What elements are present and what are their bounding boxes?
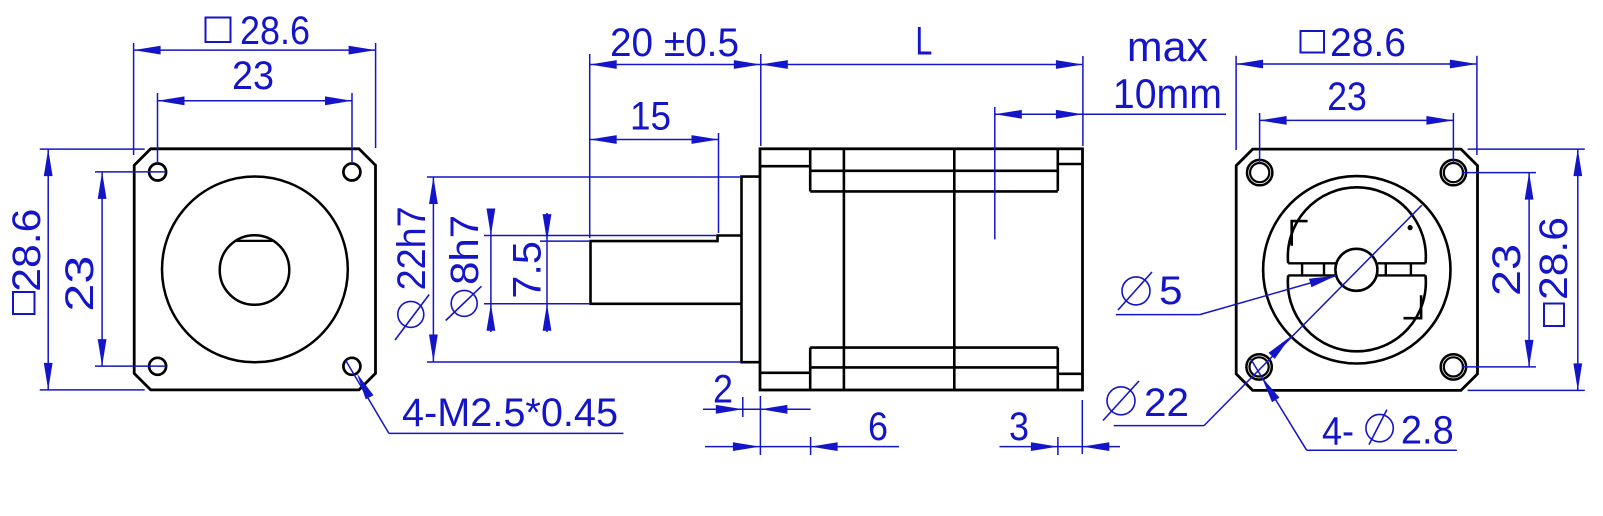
svg-text:4-: 4- [1322, 410, 1354, 454]
leader 4-D2.8 [1307, 449, 1457, 451]
svg-text:23: 23 [58, 256, 102, 312]
dimension square28.6 top: extension lines [133, 43, 135, 155]
svg-text:20 ±0.5: 20 ±0.5 [610, 21, 739, 65]
dimension L arrows [761, 60, 788, 69]
left view mounting hole bottom-right [343, 358, 360, 375]
right view ring hole bottom-left [1246, 354, 1271, 379]
right view shaft circle D5 [1335, 249, 1377, 291]
dimension square28.6 left: extension lines [40, 148, 145, 150]
middle bottom-right lip [1058, 372, 1083, 375]
left view mounting hole top-right [343, 164, 360, 181]
left view shaft flat chord [235, 240, 273, 242]
right dimension square28.6 right side [1468, 148, 1585, 150]
svg-text:23: 23 [1327, 75, 1367, 119]
right view rotor tab top-left [1292, 221, 1308, 246]
svg-text:2.8: 2.8 [1401, 408, 1454, 452]
right view band ticks [1301, 263, 1303, 275]
svg-text:4-M2.5*0.45: 4-M2.5*0.45 [402, 391, 618, 435]
front pilot boss rectangle [742, 177, 761, 363]
dimension 20+-0.5 and L: dim line [590, 64, 1083, 66]
middle bottom-left lip [760, 371, 810, 374]
left view mounting hole bottom-left [149, 358, 166, 375]
middle top band lines [810, 170, 1058, 173]
svg-text:5: 5 [1159, 269, 1183, 313]
svg-text:28.6: 28.6 [5, 209, 49, 292]
left view pilot boss circle D22 [162, 177, 348, 363]
middle top-right lip [1058, 163, 1083, 166]
right view rear boss circle D22 [1263, 176, 1450, 363]
svg-text:22h7: 22h7 [390, 206, 434, 290]
right dimension 23 right side [1462, 172, 1536, 174]
dimension 23 top: extension lines [157, 93, 159, 164]
right view ring hole top-left [1247, 160, 1272, 185]
svg-text:28.6: 28.6 [240, 9, 310, 53]
svg-text:22: 22 [1144, 381, 1189, 425]
svg-text:15: 15 [630, 95, 671, 139]
right view ring hole top-right [1441, 160, 1466, 185]
svg-text:23: 23 [1485, 244, 1529, 296]
shaft profile [591, 236, 742, 304]
svg-text:max: max [1127, 23, 1208, 70]
dimension 3 [1057, 437, 1059, 455]
dimension max 10mm: extension line [994, 107, 996, 239]
svg-text:8h7: 8h7 [443, 215, 487, 285]
middle end cap boundary right [953, 149, 956, 390]
right view rotor top arc [1288, 187, 1426, 263]
dimension 6 [810, 437, 812, 455]
leader D5 [1116, 314, 1200, 316]
dimension square28.6 left: dim line [47, 149, 49, 390]
right view square with chamfered corners [1236, 149, 1477, 390]
dimension max 10mm: dim line [995, 113, 1226, 115]
dimension 23 left: extension lines [95, 171, 166, 173]
dimension 20+-0.5: extension lines [589, 54, 591, 238]
dimension square28.6 left: square symbol [13, 292, 35, 314]
right dimension 23 top [1259, 113, 1261, 163]
right dimension square28.6 top: dim line [1236, 63, 1477, 65]
dimension 15: dim line [590, 139, 719, 141]
svg-text:3: 3 [1009, 405, 1029, 449]
dimension square28.6 top: square symbol [206, 18, 231, 43]
middle end cap boundary left [843, 149, 846, 390]
right view rotor bottom arc [1288, 275, 1426, 351]
leader D22 [1114, 425, 1204, 427]
left view shaft circle D8 [220, 235, 290, 305]
dimension vertical 7.5 [540, 240, 589, 242]
middle top-left lip [760, 165, 810, 168]
svg-text:28.6: 28.6 [1532, 217, 1576, 300]
leader 4-M2.5*0.45 [346, 361, 389, 434]
right view ring hole bottom-right [1441, 354, 1466, 379]
svg-text:7.5: 7.5 [506, 241, 550, 299]
svg-text:23: 23 [232, 54, 274, 98]
dimension 23 left: dim line [101, 172, 103, 366]
right view rotor tab bottom-right [1404, 295, 1422, 318]
dimension vertical D8h7 [484, 235, 716, 237]
middle bottom band lines [810, 346, 1058, 349]
dimension 2 (boss) [742, 397, 744, 417]
svg-text:10mm: 10mm [1113, 70, 1222, 117]
dimension vertical D22h7 [427, 176, 741, 178]
svg-text:28.6: 28.6 [1330, 21, 1406, 65]
svg-text:6: 6 [868, 405, 888, 449]
left view mounting hole top-left [149, 164, 166, 181]
dimension square28.6 top: dim line [134, 49, 376, 51]
middle body outline [760, 149, 1083, 390]
right view band chords [1288, 262, 1336, 264]
svg-text:2: 2 [713, 368, 733, 412]
right dimension square28.6 top: extensions [1235, 56, 1237, 150]
svg-text:L: L [915, 20, 932, 64]
dimension 23 top: dim line [158, 100, 353, 102]
left view motor face square with chamfered corners [134, 149, 375, 390]
